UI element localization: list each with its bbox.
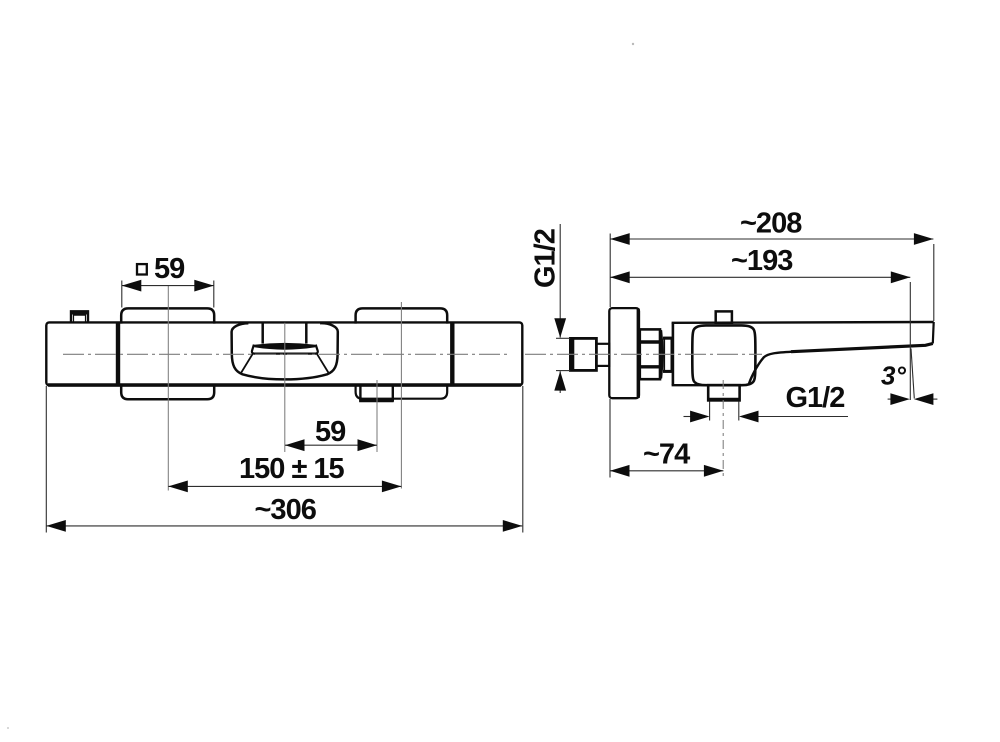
svg-text:~193: ~193 [731, 245, 793, 277]
svg-text:~74: ~74 [643, 439, 690, 471]
svg-text:150 ± 15: 150 ± 15 [239, 453, 345, 485]
svg-text:59: 59 [315, 416, 346, 448]
svg-text:G1/2: G1/2 [530, 229, 562, 288]
svg-text:59: 59 [154, 253, 185, 285]
svg-text:G1/2: G1/2 [786, 382, 845, 414]
svg-text:~306: ~306 [255, 494, 317, 526]
svg-text:~208: ~208 [740, 207, 802, 239]
svg-text:3°: 3° [881, 361, 906, 391]
